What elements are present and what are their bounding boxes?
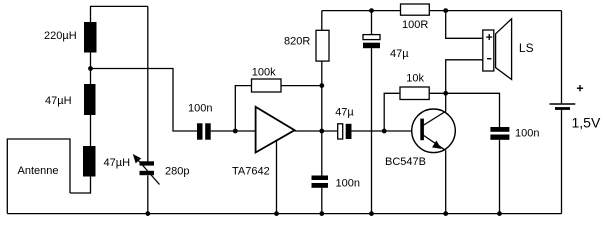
wire tap to 100n: [91, 69, 198, 132]
svg-text:1,5V: 1,5V: [572, 115, 601, 131]
wire top rail right: [429, 10, 561, 12]
node 280p ground dot: [145, 211, 150, 216]
wire speaker plus branch: [446, 11, 483, 39]
svg-text:820R: 820R: [284, 36, 310, 48]
wire C4 to ground: [371, 48, 373, 213]
wire TA7642 ground pin: [276, 140, 278, 214]
svg-text:47µ: 47µ: [335, 107, 354, 119]
transistor Q1 collector lead: [423, 93, 446, 125]
capacitor C3 100n plates: [312, 176, 329, 181]
wire 10k to collector node: [429, 92, 446, 94]
transistor Q1 emitter arrowhead: [432, 141, 441, 149]
wire C3 bottom: [321, 188, 323, 214]
capacitor C1 280p arrow: [138, 160, 160, 185]
wire top power rail: [322, 10, 401, 12]
wire C6 bottom: [499, 140, 501, 214]
transistor Q1 base bar: [420, 119, 424, 141]
wire bottom ground rail: [7, 213, 561, 215]
svg-text:220µH: 220µH: [44, 30, 77, 42]
transistor Q1 BC547B circle: [412, 109, 456, 153]
node C4 ground dot: [369, 211, 374, 216]
node 47u top dot: [369, 8, 374, 13]
node C3 ground dot: [319, 211, 324, 216]
wire antenna top rail: [91, 6, 148, 22]
wire C5 to base: [352, 130, 420, 132]
wire base branch to 10k: [384, 93, 400, 131]
wire 280p bottom: [147, 176, 149, 214]
node tap junction dot: [88, 66, 93, 71]
wire L3 bottom to antenna box: [70, 177, 91, 194]
resistor R2 820R: [321, 11, 323, 31]
svg-text:47µH: 47µH: [45, 95, 72, 107]
node output junction dot: [319, 129, 324, 134]
battery B1 short plate: [555, 107, 570, 110]
node TA7642 ground dot: [274, 211, 279, 216]
resistor R4 10k: [400, 87, 429, 100]
wire L1 to L2: [90, 53, 92, 85]
node input junction dot: [233, 129, 238, 134]
wire 100k to 820R node: [281, 85, 322, 87]
wire emitter to ground: [445, 150, 447, 213]
wire speaker minus branch: [446, 60, 483, 94]
svg-text:LS: LS: [519, 41, 534, 55]
label speaker minus: [487, 58, 491, 59]
capacitor C4 47u electrolytic: [371, 11, 373, 35]
antenna box: [7, 139, 70, 214]
transistor Q1 emitter lead: [423, 135, 446, 150]
inductor L1 220uH: [84, 22, 97, 53]
wire input to 100k: [235, 86, 251, 131]
svg-text:47µH: 47µH: [104, 157, 131, 169]
resistor R1 100k: [252, 79, 282, 92]
battery B1 long plate: [550, 103, 576, 105]
node collector junction dot: [443, 91, 448, 96]
inductor L3 47uH: [83, 146, 96, 177]
speaker LS body: [483, 30, 494, 71]
node C6 ground dot: [497, 211, 502, 216]
svg-text:TA7642: TA7642: [232, 166, 270, 178]
wire L2 to L3: [90, 115, 92, 146]
svg-text:BC547B: BC547B: [385, 156, 426, 168]
capacitor C2 100n plates: [197, 123, 203, 139]
battery B1 wires: [561, 11, 563, 104]
capacitor C5 47u coupling: [338, 124, 343, 139]
wire collector node to 100n right: [446, 93, 500, 127]
capacitor C6 100n plates: [490, 127, 509, 132]
svg-text:10k: 10k: [406, 73, 424, 85]
svg-text:100n: 100n: [188, 103, 212, 115]
wire 280p top vertical: [147, 6, 149, 162]
resistor R3 100R: [401, 4, 430, 15]
svg-text:Antenne: Antenne: [18, 165, 59, 177]
wire 100n to TA7642 input: [211, 130, 256, 132]
node speaker branch dot: [443, 8, 448, 13]
inductor L2 47uH: [84, 84, 96, 115]
wire TA7642 output: [295, 130, 338, 132]
speaker LS cone: [496, 19, 512, 80]
svg-text:47µ: 47µ: [390, 48, 409, 60]
svg-text:100R: 100R: [402, 19, 428, 31]
svg-text:100n: 100n: [336, 177, 360, 189]
node base branch dot: [382, 129, 387, 134]
wire 820R bottom chain: [321, 61, 323, 175]
svg-text:100k: 100k: [252, 67, 276, 79]
label battery plus: [577, 88, 583, 89]
svg-text:100n: 100n: [515, 128, 539, 140]
label speaker plus: [486, 36, 492, 37]
svg-text:280p: 280p: [165, 166, 189, 178]
node feedback junction dot: [319, 83, 324, 88]
node emitter ground dot: [443, 211, 448, 216]
capacitor C1 280p plates: [140, 161, 155, 165]
op-amp U1 TA7642: [256, 107, 295, 153]
